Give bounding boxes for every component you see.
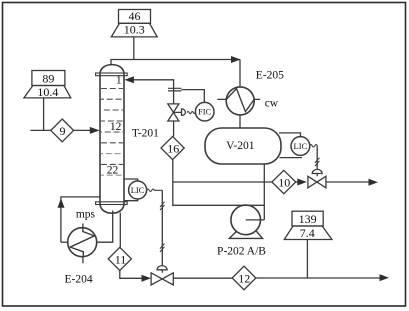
stream diamond 12 xyxy=(232,266,256,290)
LIC taps to column xyxy=(124,179,138,201)
LIC signal squiggle xyxy=(147,189,163,192)
reboiler E-204 xyxy=(68,228,97,257)
svg-text:9: 9 xyxy=(60,124,66,138)
signal slash marks upper xyxy=(160,202,165,210)
svg-text:V-201: V-201 xyxy=(226,140,255,152)
svg-text:16: 16 xyxy=(167,142,179,156)
signal squiggle to FIC xyxy=(187,111,195,113)
svg-text:mps: mps xyxy=(76,208,96,220)
wire: valve to diamond 12 xyxy=(173,277,232,279)
LIC taps to V-201 xyxy=(279,133,302,158)
stream diamond 9 xyxy=(51,119,74,142)
svg-text:22: 22 xyxy=(107,165,119,177)
flag stream 46/10.3 xyxy=(111,9,157,59)
wire: diamond 16 down to pump discharge xyxy=(173,160,264,206)
wire: E-204 left stub xyxy=(61,241,68,243)
bottoms valve actuator dome xyxy=(157,266,167,270)
signal slash marks lower xyxy=(160,244,165,252)
stream diamond 10 xyxy=(272,170,296,193)
wire: signal down to product valve xyxy=(316,146,318,177)
svg-text:T-201: T-201 xyxy=(132,128,159,140)
E-204 mps stub top xyxy=(82,223,84,227)
wire: signal down to bottoms valve xyxy=(161,190,163,272)
column trays (dashed) xyxy=(101,89,123,176)
svg-text:139: 139 xyxy=(299,212,317,226)
LIC signal squiggle xyxy=(310,145,318,148)
E-205 coil zigzag xyxy=(226,89,254,112)
svg-text:LIC: LIC xyxy=(294,141,308,151)
vessel V-201 xyxy=(205,128,281,164)
wire: reboiler return riser xyxy=(61,197,100,242)
arrow into bottoms valve xyxy=(142,275,152,282)
control valve (reflux) xyxy=(168,104,179,121)
stream diamond 16 xyxy=(161,136,184,159)
product control valve xyxy=(308,176,326,188)
wire: overhead vapor line xyxy=(111,60,240,88)
svg-text:1: 1 xyxy=(116,75,122,87)
wire: product branch to diamond 10 xyxy=(173,181,272,183)
valve actuator link xyxy=(173,111,181,113)
instrument LIC (V-201) xyxy=(291,137,310,156)
svg-text:10.3: 10.3 xyxy=(124,23,145,37)
orifice plate FE xyxy=(168,88,182,91)
svg-text:11: 11 xyxy=(115,252,127,266)
condenser E-205 xyxy=(226,87,254,115)
signal slash marks xyxy=(315,158,320,166)
E-205 cw stubs xyxy=(217,98,260,100)
wire: feed to column xyxy=(74,129,90,131)
actuator D symbol xyxy=(182,109,186,116)
wire: diamond 11 to bottoms valve xyxy=(120,271,142,279)
arrow feed into column xyxy=(90,127,100,134)
svg-text:E-205: E-205 xyxy=(256,69,284,81)
svg-text:89: 89 xyxy=(42,72,54,86)
arrow bottoms product out xyxy=(380,274,390,281)
product valve actuator dome xyxy=(312,169,322,173)
svg-text:E-204: E-204 xyxy=(65,274,93,286)
wire: orifice tap to FIC xyxy=(182,90,205,103)
instrument LIC (column) xyxy=(129,181,147,199)
svg-text:10: 10 xyxy=(278,176,290,190)
svg-text:LIC: LIC xyxy=(131,185,145,195)
E-204 coil zigzag xyxy=(70,228,94,257)
E-204 condensate stub bottom xyxy=(82,257,84,264)
arrow reboiler return up xyxy=(58,198,65,208)
wire: valve to diamond 16 xyxy=(173,121,175,136)
wire: bottoms draw to E-204 xyxy=(97,211,113,243)
wire: feed line xyxy=(30,129,50,131)
wire: product line out xyxy=(326,181,370,183)
stream diamond 11 xyxy=(108,247,131,270)
svg-text:cw: cw xyxy=(265,98,279,110)
wire: bottoms product out xyxy=(256,277,380,279)
wire: V-201 bottom outlet to pump xyxy=(246,164,265,220)
instrument FIC xyxy=(195,102,214,121)
column T-201 shell xyxy=(100,65,124,214)
flag stream 89/10.4 xyxy=(24,71,71,131)
wire + arrow diamond10 to valve xyxy=(296,181,298,183)
svg-text:7.4: 7.4 xyxy=(300,226,315,240)
svg-text:12: 12 xyxy=(110,121,122,133)
bottoms control valve xyxy=(151,273,173,285)
column top flange xyxy=(96,73,128,76)
svg-text:46: 46 xyxy=(129,9,141,23)
flag stream 139/7.4 xyxy=(284,211,332,278)
svg-text:FIC: FIC xyxy=(198,106,212,116)
svg-text:10.4: 10.4 xyxy=(37,85,58,99)
svg-text:P-202 A/B: P-202 A/B xyxy=(217,246,266,258)
wire: reflux line to column top xyxy=(133,80,174,104)
wire: bottoms to diamond 11 xyxy=(119,213,121,248)
svg-text:12: 12 xyxy=(238,272,250,286)
arrow on vapor line xyxy=(231,56,241,63)
column bottom flange xyxy=(96,202,128,205)
arrow product out xyxy=(369,179,379,186)
pump P-202 A/B xyxy=(231,205,261,235)
arrow reflux into column xyxy=(124,76,133,83)
wire: E-205 to V-201 xyxy=(239,115,241,128)
